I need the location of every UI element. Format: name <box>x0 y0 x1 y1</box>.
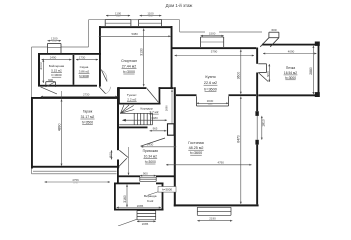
svg-text:h=3600: h=3600 <box>190 151 202 155</box>
svg-text:h=3000: h=3000 <box>162 188 172 192</box>
svg-text:16.54 м2: 16.54 м2 <box>284 71 297 75</box>
svg-text:3000: 3000 <box>39 62 43 70</box>
svg-text:2490: 2490 <box>50 56 57 60</box>
svg-text:5.15 м2: 5.15 м2 <box>51 69 62 73</box>
svg-text:2190: 2190 <box>209 217 216 221</box>
svg-text:900: 900 <box>267 71 271 77</box>
svg-text:h=3000: h=3000 <box>51 73 61 77</box>
svg-text:Дом 1-й этаж: Дом 1-й этаж <box>166 3 193 8</box>
svg-text:31.17 м2: 31.17 м2 <box>81 115 95 119</box>
svg-text:1730: 1730 <box>79 56 86 60</box>
svg-text:2085: 2085 <box>142 222 149 226</box>
svg-text:3480: 3480 <box>151 116 158 120</box>
svg-text:3600: 3600 <box>237 72 241 80</box>
svg-text:Кухня: Кухня <box>205 75 215 79</box>
svg-text:48.25 м2: 48.25 м2 <box>189 146 204 150</box>
svg-text:Бойлерная: Бойлерная <box>49 64 65 68</box>
svg-text:h=3000: h=3000 <box>285 76 296 80</box>
svg-text:900: 900 <box>143 172 148 176</box>
svg-text:27.44 м2: 27.44 м2 <box>122 64 136 68</box>
svg-text:2085: 2085 <box>137 204 144 208</box>
svg-text:Печка: Печка <box>286 66 295 70</box>
svg-text:1500: 1500 <box>209 32 216 36</box>
svg-text:600: 600 <box>271 28 276 32</box>
svg-text:Веранда: Веранда <box>144 194 157 198</box>
svg-text:h=3500: h=3500 <box>82 121 94 125</box>
svg-text:4790: 4790 <box>217 161 224 165</box>
svg-text:Спортзал: Спортзал <box>121 59 137 63</box>
svg-text:h=3000: h=3000 <box>123 70 135 74</box>
svg-text:900: 900 <box>48 78 53 82</box>
svg-text:2.2 м2: 2.2 м2 <box>127 97 136 101</box>
svg-text:5080: 5080 <box>131 32 138 36</box>
svg-text:900: 900 <box>109 152 113 158</box>
svg-text:Гараж: Гараж <box>83 109 93 113</box>
svg-text:3160: 3160 <box>123 195 127 203</box>
svg-text:22.6 м2: 22.6 м2 <box>204 81 217 85</box>
svg-text:965: 965 <box>153 127 158 131</box>
svg-text:9 м2: 9 м2 <box>147 199 154 203</box>
svg-text:4890: 4890 <box>57 123 61 131</box>
svg-text:Гостиная: Гостиная <box>188 141 203 145</box>
svg-text:9.7 м2: 9.7 м2 <box>150 110 159 114</box>
svg-text:h=3000: h=3000 <box>145 160 156 164</box>
svg-text:h=3600: h=3600 <box>204 87 217 91</box>
svg-text:3130: 3130 <box>140 48 144 56</box>
svg-text:6470: 6470 <box>237 135 241 143</box>
svg-text:3430: 3430 <box>147 143 154 147</box>
svg-text:Прихожая: Прихожая <box>143 149 158 153</box>
svg-text:3030: 3030 <box>207 99 214 103</box>
svg-text:5790: 5790 <box>211 50 218 54</box>
svg-text:2690: 2690 <box>164 105 168 111</box>
svg-text:1810: 1810 <box>261 119 265 127</box>
svg-text:4756: 4756 <box>72 178 79 182</box>
svg-text:h=3000: h=3000 <box>79 74 89 78</box>
svg-text:2730: 2730 <box>83 93 90 97</box>
svg-text:1100: 1100 <box>147 12 154 16</box>
svg-text:1200: 1200 <box>51 37 58 41</box>
svg-text:10.34 м2: 10.34 м2 <box>144 155 157 159</box>
svg-text:1100: 1100 <box>115 12 122 16</box>
svg-text:Туалет: Туалет <box>127 93 137 97</box>
svg-text:4090: 4090 <box>288 49 295 53</box>
svg-text:2880: 2880 <box>309 67 313 75</box>
